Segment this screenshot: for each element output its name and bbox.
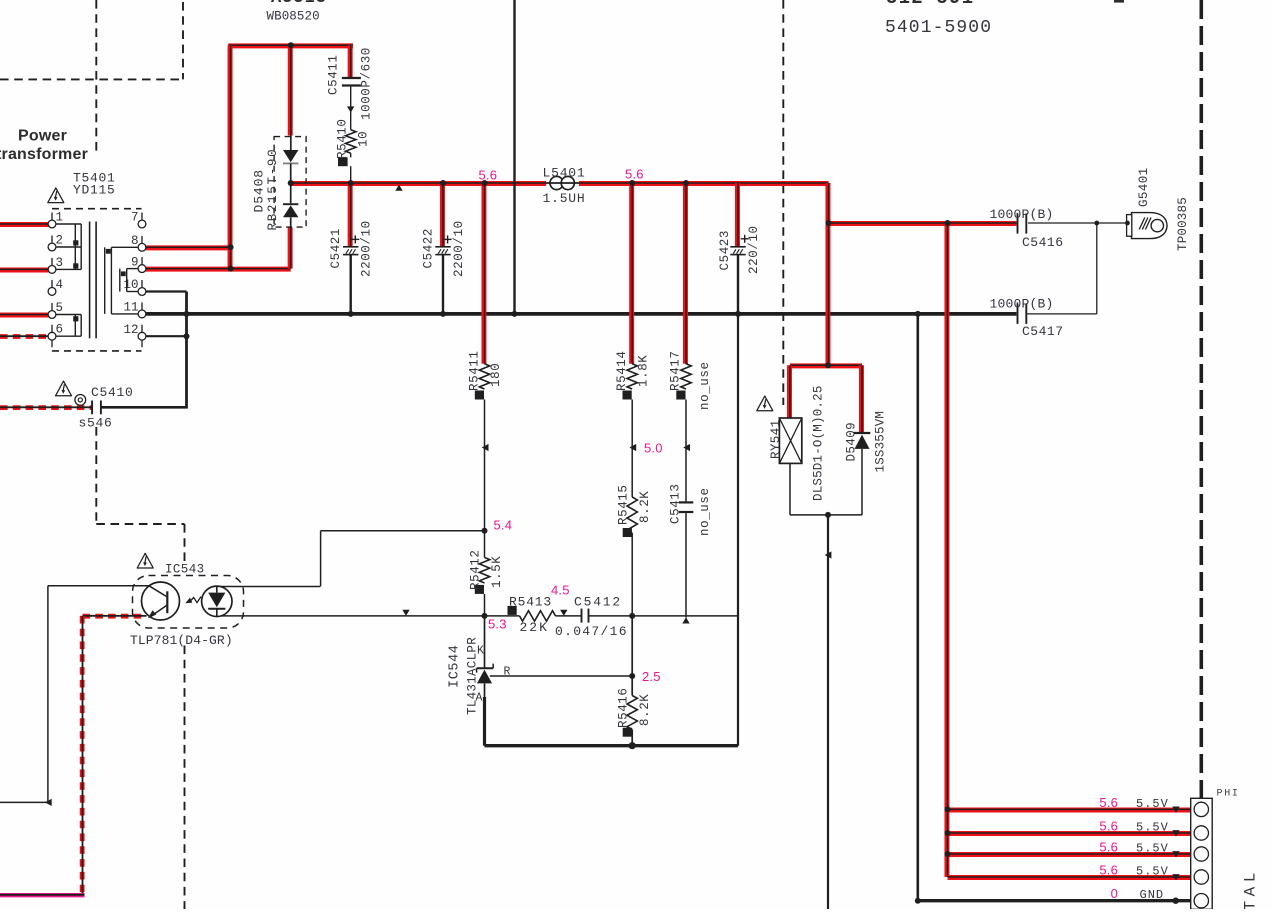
svg-text:transformer: transformer xyxy=(0,146,88,163)
svg-text:s546: s546 xyxy=(79,416,113,431)
svg-text:7: 7 xyxy=(131,211,139,225)
svg-text:DLS5D1-O(M)0.25: DLS5D1-O(M)0.25 xyxy=(812,385,826,501)
svg-text:9: 9 xyxy=(131,255,139,269)
svg-text:1.8K: 1.8K xyxy=(637,355,651,387)
svg-text:10: 10 xyxy=(357,131,371,147)
svg-text:10: 10 xyxy=(123,278,138,292)
svg-text:R5416: R5416 xyxy=(617,687,631,728)
svg-text:TP00385: TP00385 xyxy=(1176,197,1190,251)
svg-text:no_use: no_use xyxy=(698,487,712,536)
svg-text:1000P/630: 1000P/630 xyxy=(360,47,374,120)
svg-text:5.5V: 5.5V xyxy=(1136,841,1169,855)
svg-text:R5413: R5413 xyxy=(509,595,552,610)
svg-text:C5412: C5412 xyxy=(574,595,622,610)
svg-text:IC544: IC544 xyxy=(448,644,463,688)
svg-text:11: 11 xyxy=(123,301,138,315)
svg-text:4.5: 4.5 xyxy=(551,583,570,598)
svg-text:R5414: R5414 xyxy=(615,350,629,391)
svg-text:2.5: 2.5 xyxy=(642,669,661,684)
svg-text:2200/10: 2200/10 xyxy=(452,220,466,277)
svg-text:5.6: 5.6 xyxy=(1099,818,1118,833)
svg-text:C5411: C5411 xyxy=(327,54,341,95)
svg-text:2200/10: 2200/10 xyxy=(360,220,374,277)
svg-text:220/10: 220/10 xyxy=(747,225,761,274)
svg-text:5.5V: 5.5V xyxy=(1136,864,1169,878)
svg-text:TLP781(D4-GR): TLP781(D4-GR) xyxy=(130,633,233,648)
svg-text:TAL: TAL xyxy=(1242,868,1260,909)
svg-text:512-591: 512-591 xyxy=(886,0,974,9)
svg-text:2: 2 xyxy=(56,234,64,248)
svg-text:R5410: R5410 xyxy=(336,118,350,159)
svg-text:5.5V: 5.5V xyxy=(1136,820,1169,834)
svg-text:1000P(B): 1000P(B) xyxy=(990,207,1054,222)
svg-text:180: 180 xyxy=(489,363,503,387)
svg-text:WB08520: WB08520 xyxy=(267,10,320,24)
svg-text:4: 4 xyxy=(56,278,64,292)
svg-text:C5410: C5410 xyxy=(91,385,134,400)
svg-text:A5513: A5513 xyxy=(271,0,327,8)
svg-text:22K: 22K xyxy=(520,620,549,635)
svg-text:0.047/16: 0.047/16 xyxy=(555,624,628,639)
svg-text:0: 0 xyxy=(1111,886,1118,901)
svg-text:1.5UH: 1.5UH xyxy=(543,191,586,206)
svg-text:no_use: no_use xyxy=(698,361,712,410)
svg-text:5.5V: 5.5V xyxy=(1136,797,1169,811)
svg-text:5401-5900: 5401-5900 xyxy=(885,18,992,38)
svg-text:3: 3 xyxy=(56,256,64,270)
svg-text:C5417: C5417 xyxy=(1022,324,1064,339)
svg-text:GND: GND xyxy=(1140,888,1165,902)
svg-text:R5417: R5417 xyxy=(669,350,683,391)
svg-text:D5409: D5409 xyxy=(845,422,859,462)
svg-text:1SS355VM: 1SS355VM xyxy=(874,411,888,473)
svg-text:5.6: 5.6 xyxy=(479,168,498,183)
svg-text:1: 1 xyxy=(56,211,64,225)
svg-text:C5423: C5423 xyxy=(718,230,732,271)
svg-text:12: 12 xyxy=(123,323,138,337)
svg-text:R5411: R5411 xyxy=(468,350,482,391)
svg-text:RB215T-90: RB215T-90 xyxy=(266,148,280,231)
svg-text:C5413: C5413 xyxy=(669,483,683,524)
svg-text:YD115: YD115 xyxy=(73,183,116,198)
svg-text:C5421: C5421 xyxy=(329,228,343,269)
svg-text:6: 6 xyxy=(56,323,64,337)
svg-text:D5408: D5408 xyxy=(252,169,267,213)
svg-text:8.2K: 8.2K xyxy=(638,694,652,726)
svg-text:C5416: C5416 xyxy=(1022,235,1064,250)
svg-text:R5412: R5412 xyxy=(469,549,483,590)
svg-text:5: 5 xyxy=(56,301,64,315)
svg-text:IC543: IC543 xyxy=(165,563,205,577)
svg-text:5.0: 5.0 xyxy=(644,441,663,456)
svg-text:5.4: 5.4 xyxy=(494,518,513,533)
svg-text:G5401: G5401 xyxy=(1137,167,1151,207)
svg-text:RY541: RY541 xyxy=(769,419,783,459)
svg-text:5.6: 5.6 xyxy=(1099,795,1118,810)
svg-text:1.5K: 1.5K xyxy=(490,556,504,588)
svg-text:5.6: 5.6 xyxy=(625,167,644,182)
svg-text:5.6: 5.6 xyxy=(1099,862,1118,877)
svg-text:PHI: PHI xyxy=(1217,789,1240,800)
svg-text:C5422: C5422 xyxy=(421,228,435,269)
svg-text:TL431ACLPR: TL431ACLPR xyxy=(466,637,480,715)
svg-text:Power: Power xyxy=(18,128,67,145)
svg-text:1000P(B): 1000P(B) xyxy=(990,297,1054,312)
svg-text:R5415: R5415 xyxy=(617,484,631,525)
svg-text:8.2K: 8.2K xyxy=(638,491,652,523)
svg-text:R: R xyxy=(504,666,511,679)
svg-text:8: 8 xyxy=(131,234,139,248)
svg-text:L5401: L5401 xyxy=(543,166,586,181)
svg-text:5.3: 5.3 xyxy=(488,617,507,632)
svg-text:5.6: 5.6 xyxy=(1099,839,1118,854)
